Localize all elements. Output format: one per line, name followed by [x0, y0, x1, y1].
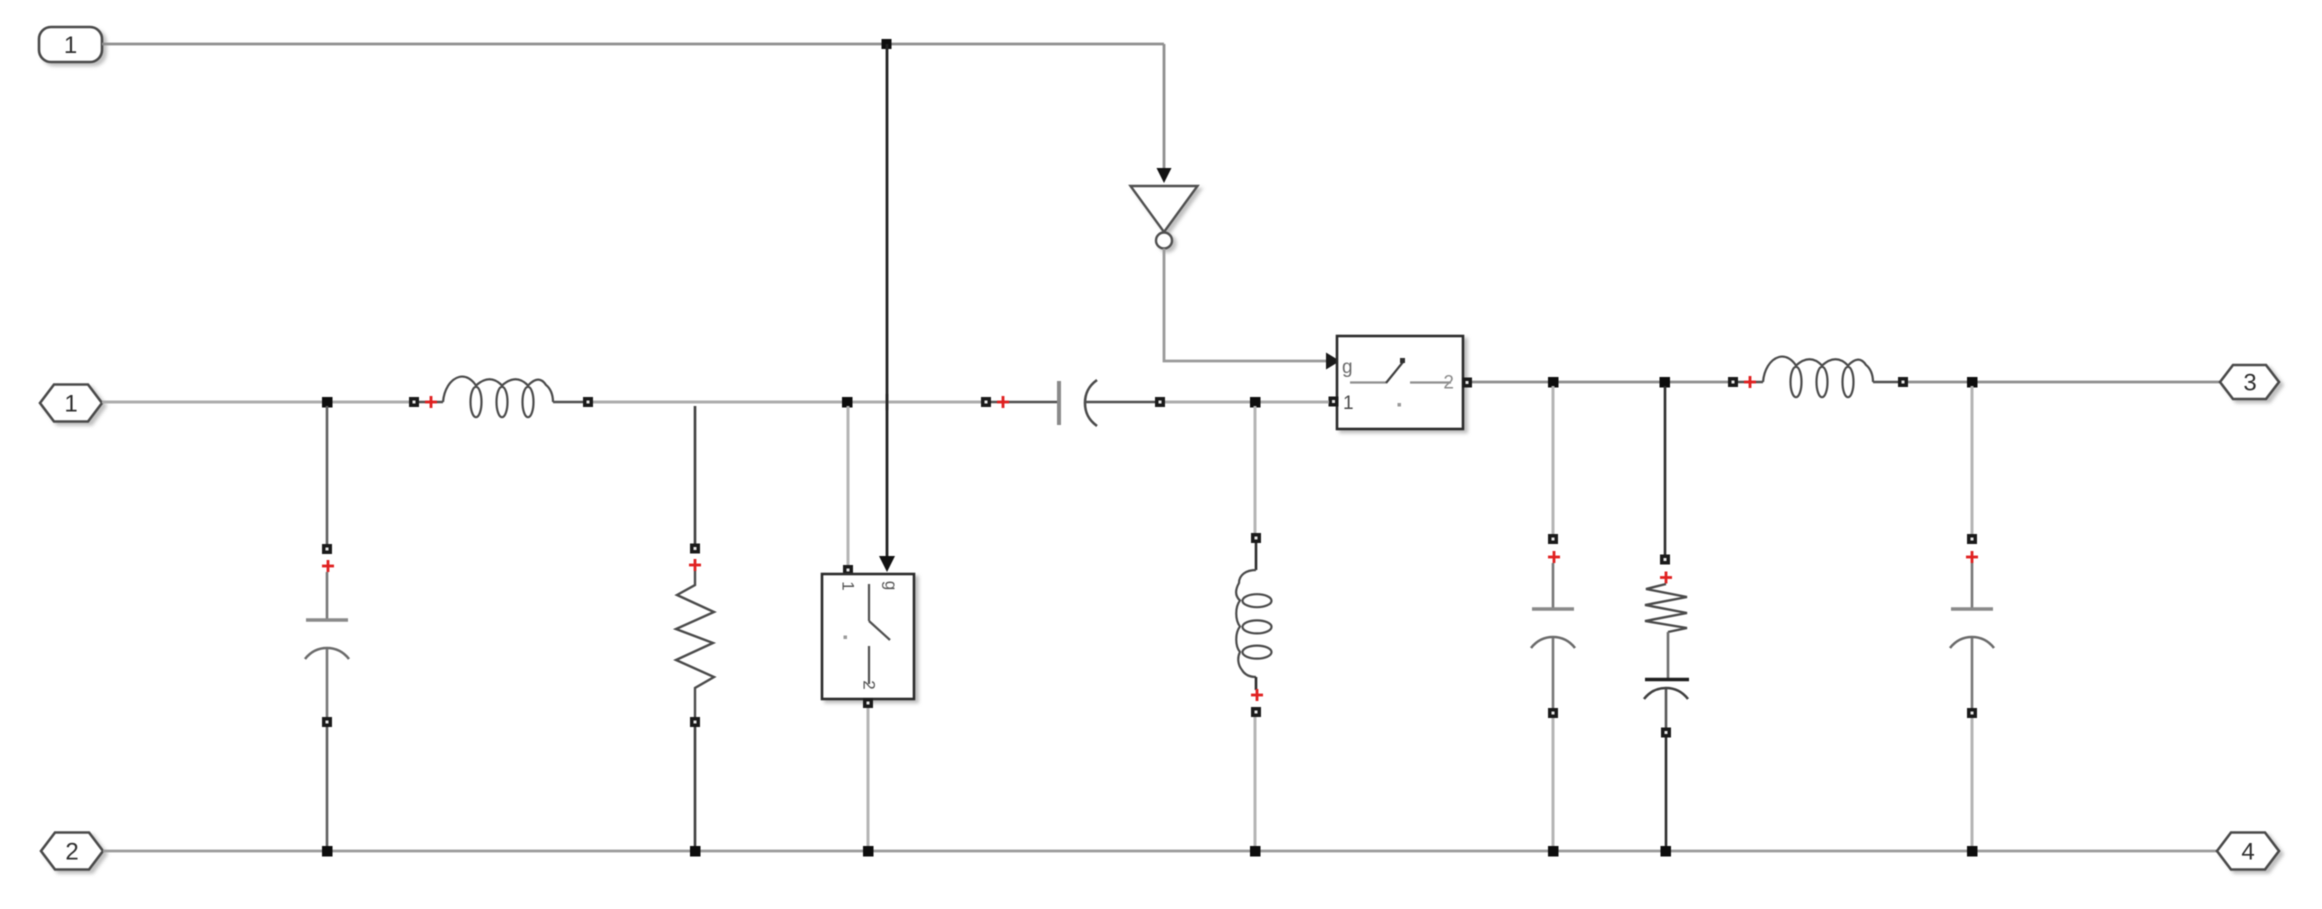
port In1 (top rounded block): [39, 27, 102, 62]
wire R1 upper: [694, 406, 697, 546]
wire C1 upper: [326, 406, 329, 546]
port square C4 bottom: [1661, 728, 1671, 738]
port Conn3 hexagon right: [2220, 365, 2279, 399]
breaker block B1 branch: [822, 406, 914, 848]
svg-text:2: 2: [65, 839, 78, 866]
svg-text:g: g: [1342, 357, 1353, 378]
RC series branch R2 C4: [1644, 386, 1689, 848]
svg-text:g: g: [882, 581, 901, 590]
arrowhead into switch g: [1326, 353, 1340, 370]
port Conn4 hexagon bottom right: [2217, 833, 2279, 870]
capacitor C1 plates: [306, 618, 348, 621]
wire lead C2 right: [1085, 401, 1155, 404]
node junction bus-C1: [322, 846, 333, 857]
polarity plus R2: [1660, 572, 1672, 584]
port square U1 pin2: [1462, 378, 1472, 388]
switch icon inside breaker: [868, 584, 870, 621]
port square breaker bottom: [863, 698, 873, 708]
port square C5 top: [1967, 534, 1977, 544]
capacitor C5 plates: [1951, 607, 1993, 610]
port square C2 right: [1155, 397, 1165, 407]
inductor L3 coil: [1236, 570, 1271, 677]
wire vertical to NOT gate: [1163, 44, 1166, 168]
capacitor C3 plates: [1532, 607, 1574, 610]
port square C3 top: [1548, 534, 1558, 544]
node junction bus-C5: [1967, 846, 1978, 857]
lead C4 lower: [1665, 689, 1668, 728]
svg-text:3: 3: [2243, 370, 2256, 397]
port square L1 left: [409, 397, 419, 407]
svg-text:1: 1: [1343, 393, 1354, 414]
port square C1 bottom: [322, 717, 332, 727]
wire right main: [1472, 381, 1731, 384]
capacitor C5 branch: [1950, 386, 1994, 848]
switch icon inside U1: [1350, 381, 1386, 383]
capacitor C1 branch: [305, 406, 349, 848]
lead C3 lower: [1552, 638, 1555, 708]
polarity plus R1: [689, 559, 701, 571]
wire C1 lower: [326, 727, 329, 848]
port square R1 bottom: [690, 717, 700, 727]
node junction bus-R1: [690, 846, 701, 857]
switch block U1 (Ideal Switch): [1337, 336, 1463, 429]
wire NOT output to switch gate: [1164, 249, 1327, 362]
node junction cap branch right2: [1967, 377, 1978, 388]
port square C5 bottom: [1967, 708, 1977, 718]
svg-text:1: 1: [839, 581, 858, 590]
polarity plus C1: [322, 560, 334, 572]
polarity plus L2: [1744, 376, 1756, 388]
wire RC upper: [1664, 386, 1667, 555]
lead C5 lower: [1971, 638, 1974, 708]
resistor R2 zigzag: [1645, 584, 1687, 632]
node junction breaker branch: [842, 397, 853, 408]
wire bottom bus: [103, 850, 2217, 853]
wire dark vertical to breaker gate: [886, 44, 889, 556]
wire main left segment b: [593, 401, 984, 404]
port square C1 top: [322, 544, 332, 554]
wire C4 lower: [1665, 738, 1668, 849]
wire main left segment a: [102, 401, 411, 404]
node junction on top wire: [882, 39, 892, 49]
capacitor C4 plates: [1645, 678, 1689, 682]
wire C5 upper: [1971, 386, 1974, 536]
port square L2 left: [1728, 377, 1738, 387]
port square R1 top: [690, 544, 700, 554]
polarity plus L3: [1251, 689, 1263, 701]
node junction RC branch: [1660, 377, 1671, 388]
svg-text:4: 4: [2241, 839, 2254, 866]
svg-text:1: 1: [64, 32, 77, 59]
polarity plus L1: [425, 396, 437, 408]
lead C3: [1552, 563, 1555, 608]
node junction bus-RC: [1661, 846, 1672, 857]
wire C3 lower: [1552, 718, 1555, 848]
port square U1 pin1: [1329, 397, 1339, 407]
wire lead into inductor L1: [411, 401, 443, 404]
resistor R1 zigzag: [676, 571, 714, 717]
lead L3 top: [1255, 543, 1258, 570]
logical operator NOT gate U2: [1131, 186, 1198, 249]
arrowhead into breaker: [879, 556, 895, 572]
lead C1: [326, 572, 329, 619]
resistor R1 branch: [676, 406, 714, 848]
wire lead into L2: [1738, 381, 1763, 384]
wire breaker upper: [847, 406, 850, 566]
wire R1 lower: [694, 727, 697, 848]
port square L3 top: [1251, 533, 1261, 543]
wire lead into series capacitor: [991, 401, 1057, 404]
wire L3 lower: [1254, 717, 1257, 848]
port square L2 right: [1898, 377, 1908, 387]
port Conn1 hexagon left: [40, 385, 102, 422]
lead L3 bottom: [1255, 677, 1258, 690]
port square L3 bottom: [1251, 707, 1261, 717]
polarity plus C3: [1548, 551, 1560, 563]
inductor L2 coil: [1763, 357, 1873, 398]
wire top horizontal from In1: [102, 43, 1164, 46]
wire dark vertical overlay at crossing: [886, 394, 889, 410]
wire L3 upper: [1254, 406, 1257, 534]
port square C2 left: [981, 397, 991, 407]
node junction bus-B1: [863, 846, 874, 857]
node junction inductor branch: [1250, 397, 1261, 408]
wire lead L2 right: [1873, 381, 1898, 384]
svg-text:1: 1: [64, 391, 77, 418]
wire right main to port 3: [1908, 381, 2220, 384]
wire lead L1 right: [553, 401, 585, 404]
wire C3 upper: [1552, 386, 1555, 536]
breaker block B1: [822, 574, 914, 699]
inductor L3 branch: [1236, 406, 1271, 848]
port square L1 right: [583, 397, 593, 407]
lead C1 lower: [326, 649, 329, 717]
wire C5 lower: [1971, 718, 1974, 848]
lead R2 to C4: [1667, 632, 1670, 678]
node junction bus-L3: [1250, 846, 1261, 857]
node junction left cap branch: [322, 397, 333, 408]
node junction bus-C3: [1548, 846, 1559, 857]
port Conn2 hexagon bottom left: [41, 833, 103, 870]
arrowhead into NOT gate: [1157, 168, 1172, 183]
wire breaker lower: [867, 708, 870, 848]
port square C3 bottom: [1548, 708, 1558, 718]
inductor L1 coil: [443, 377, 553, 418]
wire main left segment c: [1165, 401, 1329, 404]
capacitor C3 branch: [1531, 386, 1575, 848]
port square R2 top: [1660, 555, 1670, 565]
polarity plus C2: [997, 396, 1009, 408]
port square breaker top: [843, 565, 853, 575]
lead C5: [1971, 563, 1974, 608]
node junction cap branch right1: [1548, 377, 1559, 388]
polarity plus C5: [1966, 551, 1978, 563]
series capacitor C2 plates: [1057, 381, 1061, 425]
